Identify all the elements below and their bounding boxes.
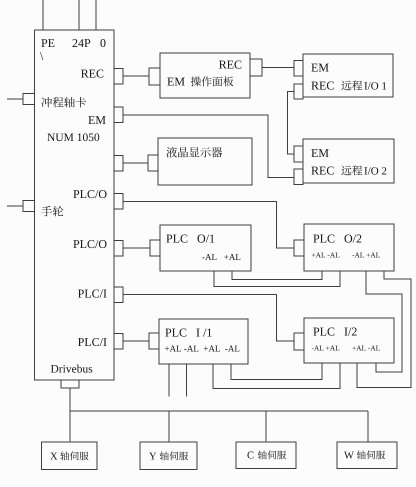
label W 轴伺服: [344, 450, 385, 459]
wire drop to C servo: [265, 411, 267, 442]
block PLC O/1: [160, 225, 251, 271]
label REC on I/O 1: [311, 82, 333, 90]
port LCD on NUM 1050: [114, 156, 123, 172]
port PLC/I-1 on NUM 1050: [114, 287, 123, 303]
port PLC/I-2 on NUM 1050: [114, 334, 123, 350]
wire PLC I/1 to PLC I/2 inner: [231, 363, 322, 380]
block EM REC 远程 I/O 1: [303, 54, 393, 97]
label EM on I/O 1: [311, 64, 328, 72]
wire PLC O/2 to PLC I/2 left loop: [366, 271, 402, 372]
port upper left of I/O 2: [294, 146, 303, 162]
label -AL +AL on PLC O/2: [352, 253, 379, 258]
block 液晶显示器 LCD display: [158, 138, 252, 185]
connector 冲程轴卡: [7, 94, 35, 105]
block X 轴伺服 servo: [42, 442, 98, 470]
label 手轮: [41, 206, 63, 217]
block C 轴伺服 servo: [236, 442, 296, 469]
wire drop to W servo: [367, 411, 369, 442]
block EM REC 远程 I/O 2: [303, 139, 394, 183]
port REC on NUM 1050: [114, 69, 123, 85]
label Drivebus: [51, 365, 92, 373]
block PLC I/1: [159, 319, 248, 364]
label PLC/O 1: [73, 190, 106, 198]
label 液晶显示器: [166, 147, 222, 158]
port lower left of I/O 2: [294, 169, 303, 185]
block PLC O/2: [304, 224, 394, 271]
wire I/O 1 to I/O 2: [288, 92, 295, 155]
label backslash: [40, 52, 43, 60]
label I/O 2: [364, 167, 386, 174]
wire stub PLC I/1 b: [186, 364, 188, 397]
label REC on panel: [219, 61, 241, 69]
label 远程 on I/O 1: [341, 80, 362, 90]
port PLC/O-1 on NUM 1050: [114, 194, 123, 210]
wire power 0V: [95, 0, 97, 30]
wire REC to panel: [123, 75, 149, 77]
block EM 操作面板 operator panel: [160, 53, 250, 98]
label +AL -AL +AL -AL on PLC I/1: [165, 346, 239, 352]
block NUM 1050 controller: [35, 30, 115, 380]
port left of panel: [149, 68, 160, 85]
label PLC O/2: [313, 235, 361, 243]
block W 轴伺服 servo: [337, 442, 397, 469]
wire PLC/O-2 to PLC O/1: [123, 247, 150, 249]
wire PLC O/2 to PLC I/2 right loop: [357, 271, 411, 388]
label 24P: [73, 39, 91, 47]
wire PLC O/1 to PLC O/2 outer: [214, 271, 340, 287]
wire EM to I/O 2: [123, 115, 294, 178]
label REC: [81, 70, 103, 78]
label C 轴伺服: [247, 450, 286, 459]
label PLC/I 1: [78, 290, 107, 298]
label 操作面板: [191, 76, 234, 86]
wire PLC/I-2 to PLC I/1: [123, 340, 149, 342]
port EM on NUM 1050: [114, 107, 123, 123]
label 远程 on I/O 2: [341, 165, 362, 175]
port left of PLC O/1: [150, 240, 160, 256]
port left of PLC I/1: [149, 333, 159, 349]
port lower left of I/O 1: [294, 84, 303, 99]
wire PLC/I-1 to PLC I/2: [123, 295, 294, 342]
wire stub PLC I/1 a: [168, 364, 170, 397]
wire PLC I/1 to PLC I/2 outer: [213, 363, 340, 389]
label NUM 1050: [47, 133, 99, 141]
label I/O 1: [364, 82, 386, 89]
wire PLC/O-1 to PLC O/2: [123, 202, 294, 249]
label +AL -AL on PLC O/2: [312, 253, 339, 258]
label EM on I/O 2: [311, 149, 328, 157]
label -AL +AL on PLC I/2: [312, 346, 339, 351]
wire LCD: [123, 162, 148, 164]
block Y 轴伺服 servo: [140, 442, 197, 470]
wire drivebus vertical: [69, 388, 71, 442]
wire power 24P: [78, 0, 80, 30]
label EM on panel: [167, 78, 184, 86]
label EM: [88, 116, 105, 124]
connector 手轮: [7, 201, 35, 212]
wire panel to I/O 1: [262, 67, 294, 69]
label PLC/I 2: [78, 338, 107, 346]
port upper left of I/O 1: [294, 61, 303, 77]
wire power PE: [42, 0, 44, 30]
label 0: [100, 39, 105, 47]
port PLC/O-2 on NUM 1050: [114, 241, 123, 257]
label X 轴伺服: [50, 451, 88, 460]
label +AL -AL on PLC I/2: [352, 346, 379, 351]
label PLC I/1: [165, 329, 211, 337]
port left of PLC O/2: [294, 240, 304, 256]
wire drop to Y servo: [168, 411, 170, 442]
port left of LCD: [148, 155, 158, 171]
label 冲程轴卡: [42, 97, 87, 107]
label PE: [41, 39, 54, 47]
label PLC/O 2: [73, 240, 106, 248]
wire drivebus horizontal: [70, 410, 368, 412]
label REC on I/O 2: [311, 167, 333, 175]
port left of PLC I/2: [294, 333, 304, 350]
label PLC O/1: [166, 235, 214, 243]
wire PLC O/1 to PLC O/2 inner: [232, 271, 322, 280]
label Y 轴伺服: [149, 451, 188, 460]
port REC right of panel: [250, 59, 262, 76]
label -AL +AL on PLC O/1: [202, 254, 240, 260]
label PLC I/2: [313, 328, 356, 336]
block PLC I/2: [304, 318, 394, 363]
port Drivebus on NUM 1050: [61, 380, 79, 388]
